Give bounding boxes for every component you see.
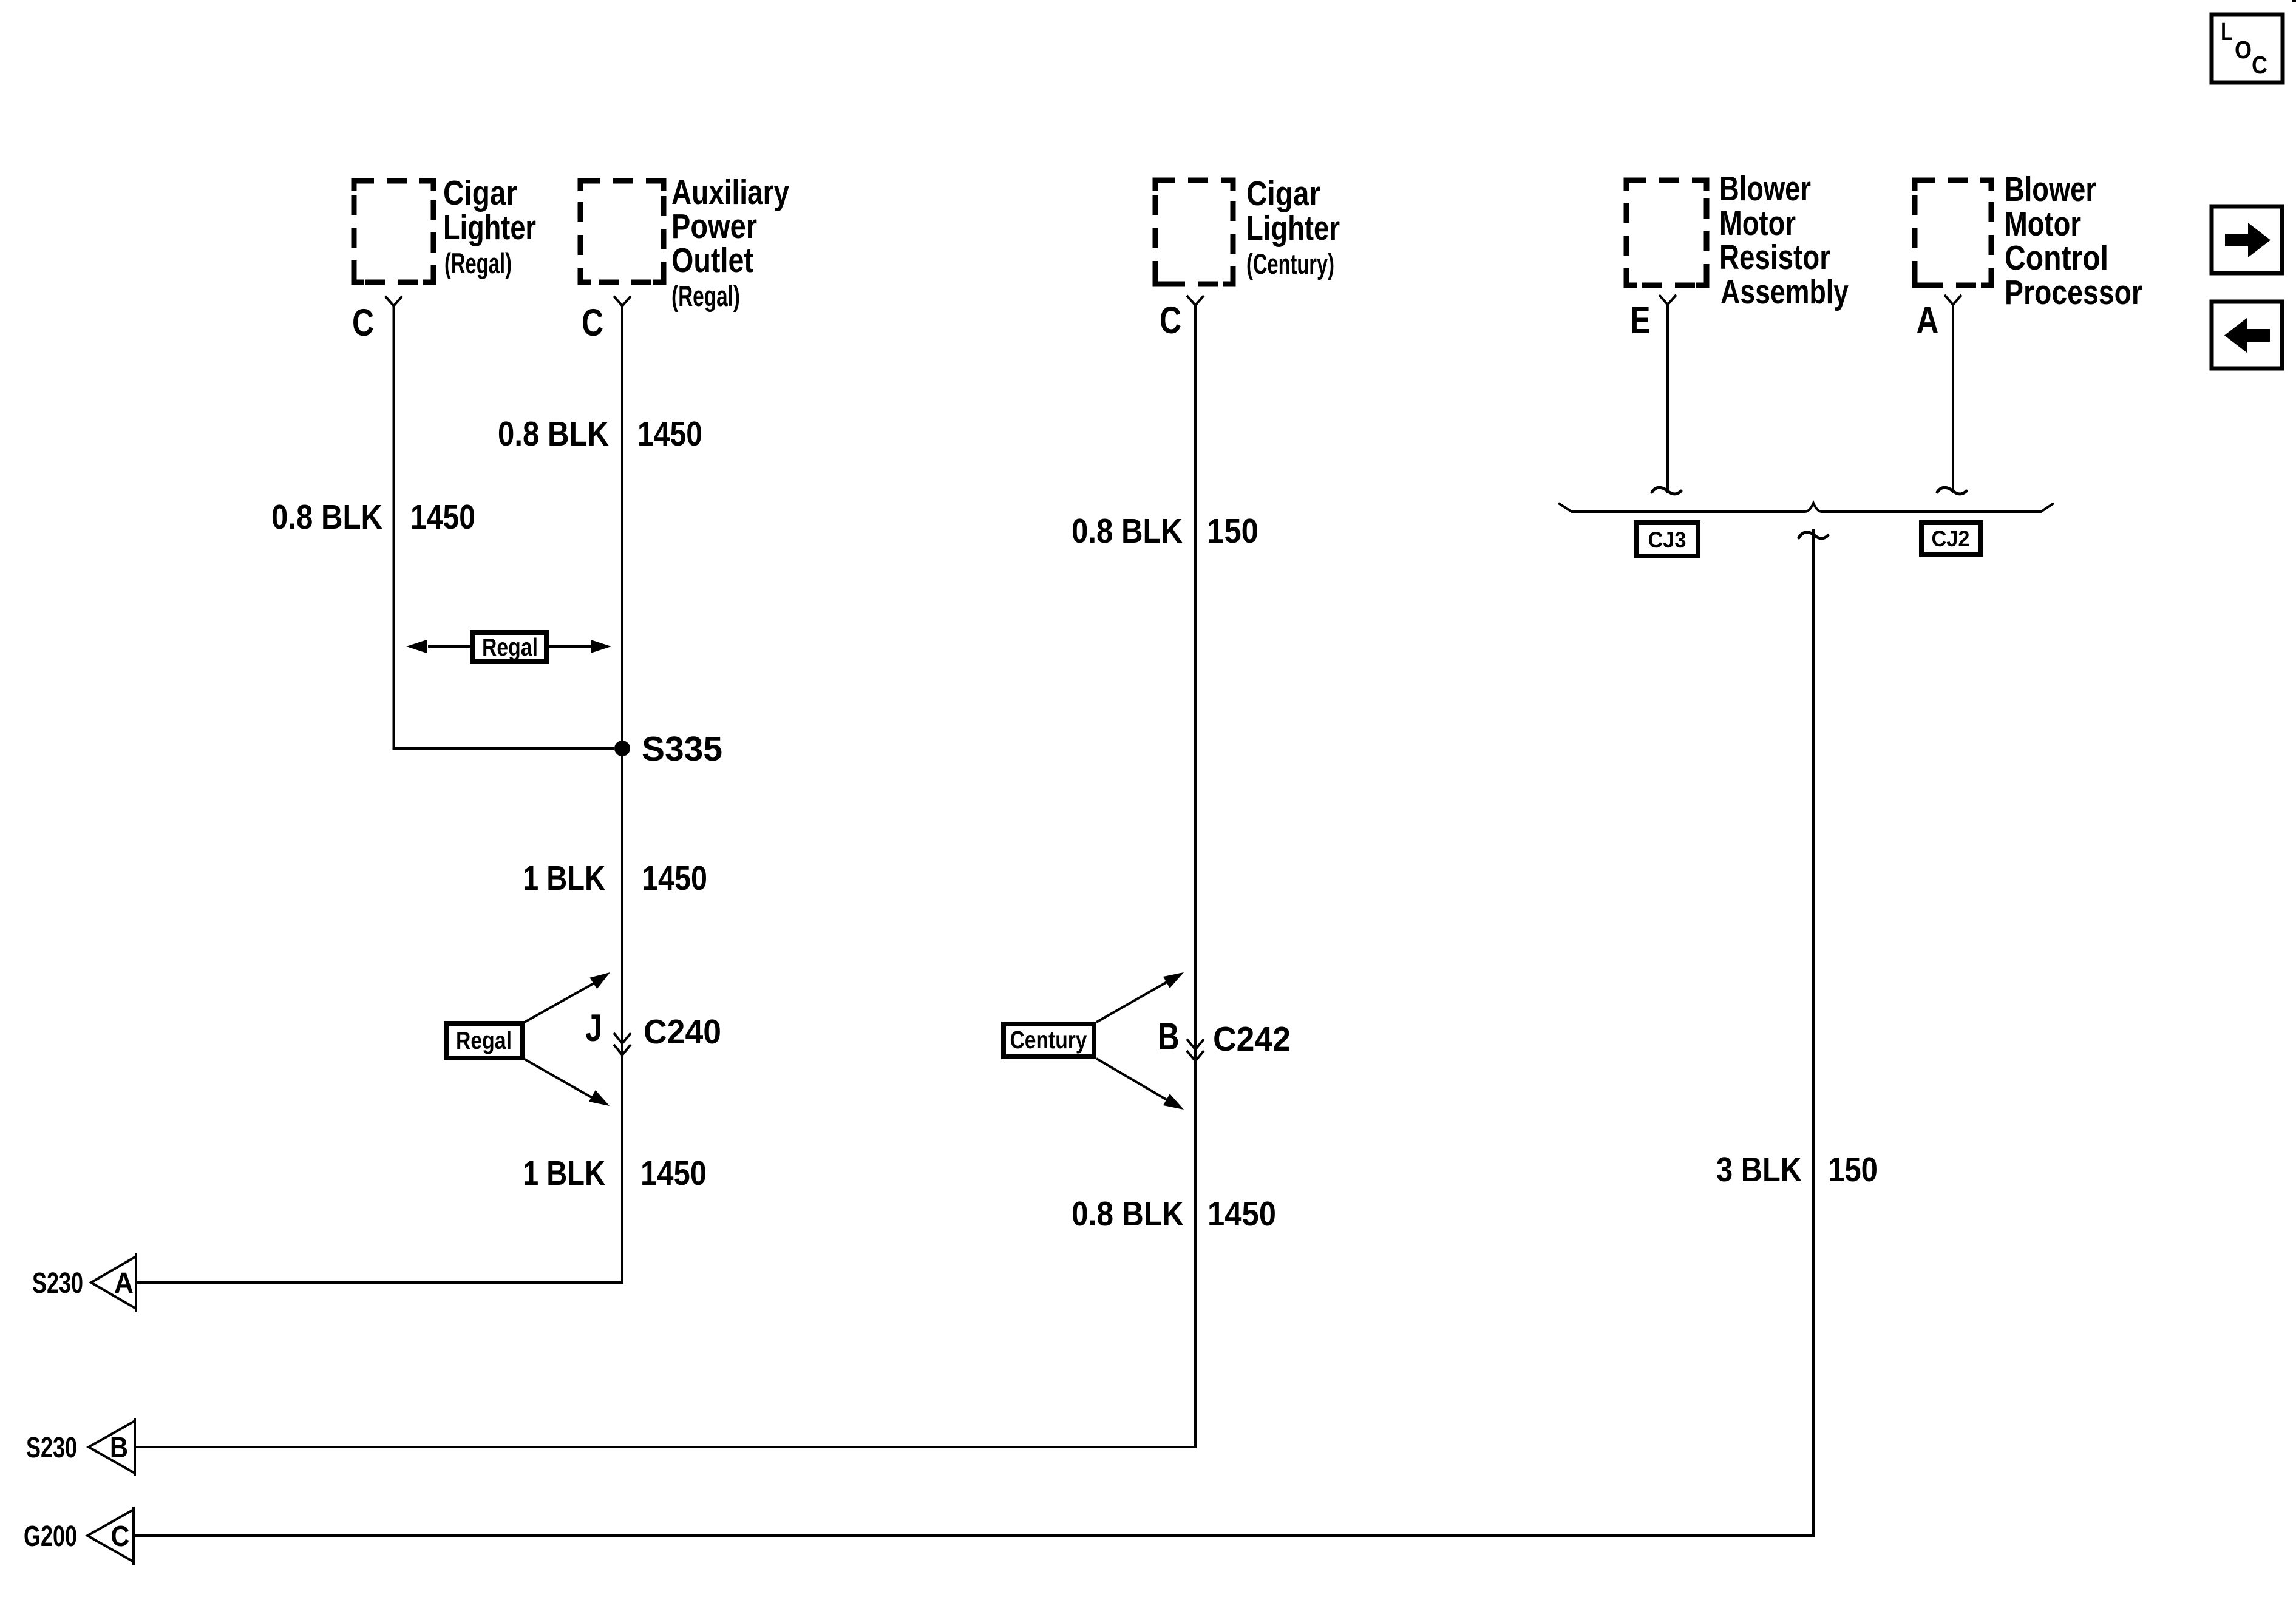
- svg-text:1450: 1450: [637, 415, 702, 453]
- svg-text:Motor: Motor: [1719, 204, 1796, 243]
- svg-text:CJ3: CJ3: [1648, 527, 1686, 552]
- svg-text:Motor: Motor: [2005, 205, 2081, 243]
- svg-text:Resistor: Resistor: [1719, 238, 1830, 277]
- svg-text:(Regal): (Regal): [671, 280, 740, 312]
- svg-text:C240: C240: [644, 1012, 721, 1051]
- svg-text:A: A: [114, 1267, 134, 1300]
- svg-text:Century: Century: [1010, 1026, 1087, 1054]
- svg-text:Regal: Regal: [482, 633, 538, 661]
- svg-text:0.8 BLK: 0.8 BLK: [1072, 512, 1183, 551]
- svg-text:1450: 1450: [410, 498, 475, 537]
- svg-text:B: B: [1158, 1015, 1180, 1058]
- svg-text:C: C: [1160, 299, 1181, 342]
- svg-text:S230: S230: [26, 1432, 77, 1464]
- svg-text:Blower: Blower: [2005, 170, 2096, 209]
- svg-text:1 BLK: 1 BLK: [523, 1154, 605, 1193]
- svg-text:C: C: [582, 302, 603, 344]
- svg-text:E: E: [1631, 299, 1651, 342]
- svg-text:1450: 1450: [640, 1154, 707, 1193]
- svg-text:G200: G200: [24, 1520, 77, 1553]
- svg-text:Control: Control: [2005, 239, 2108, 277]
- svg-text:Power: Power: [671, 207, 757, 246]
- svg-text:Processor: Processor: [2005, 273, 2142, 312]
- svg-text:C: C: [111, 1520, 130, 1553]
- svg-text:C: C: [2252, 51, 2267, 79]
- svg-text:0.8 BLK: 0.8 BLK: [1072, 1195, 1184, 1233]
- svg-text:0.8 BLK: 0.8 BLK: [271, 498, 382, 537]
- svg-text:1450: 1450: [642, 859, 707, 898]
- svg-text:3 BLK: 3 BLK: [1716, 1150, 1802, 1189]
- svg-text:Auxiliary: Auxiliary: [671, 173, 789, 212]
- svg-text:0.8 BLK: 0.8 BLK: [498, 415, 609, 453]
- svg-text:O: O: [2235, 36, 2252, 64]
- svg-text:S230: S230: [32, 1267, 83, 1300]
- svg-text:B: B: [110, 1432, 128, 1464]
- svg-text:CJ2: CJ2: [1932, 526, 1970, 551]
- svg-text:Outlet: Outlet: [671, 241, 753, 280]
- svg-text:(Century): (Century): [1246, 248, 1334, 280]
- svg-text:Lighter: Lighter: [443, 208, 536, 247]
- svg-text:C242: C242: [1213, 1020, 1291, 1059]
- svg-text:1450: 1450: [1207, 1195, 1276, 1233]
- svg-text:150: 150: [1828, 1150, 1878, 1189]
- svg-text:L: L: [2221, 18, 2233, 46]
- svg-text:(Regal): (Regal): [444, 247, 512, 279]
- svg-text:S335: S335: [642, 730, 722, 768]
- svg-text:Lighter: Lighter: [1246, 209, 1340, 248]
- svg-text:Cigar: Cigar: [443, 174, 517, 212]
- svg-text:Blower: Blower: [1719, 169, 1811, 208]
- svg-text:150: 150: [1207, 512, 1258, 551]
- svg-text:1 BLK: 1 BLK: [523, 859, 605, 898]
- svg-text:Cigar: Cigar: [1246, 174, 1320, 213]
- svg-text:A: A: [1917, 299, 1939, 342]
- svg-text:Assembly: Assembly: [1720, 273, 1849, 311]
- svg-text:Regal: Regal: [456, 1026, 512, 1054]
- svg-text:C: C: [352, 302, 374, 344]
- svg-text:J: J: [585, 1007, 602, 1049]
